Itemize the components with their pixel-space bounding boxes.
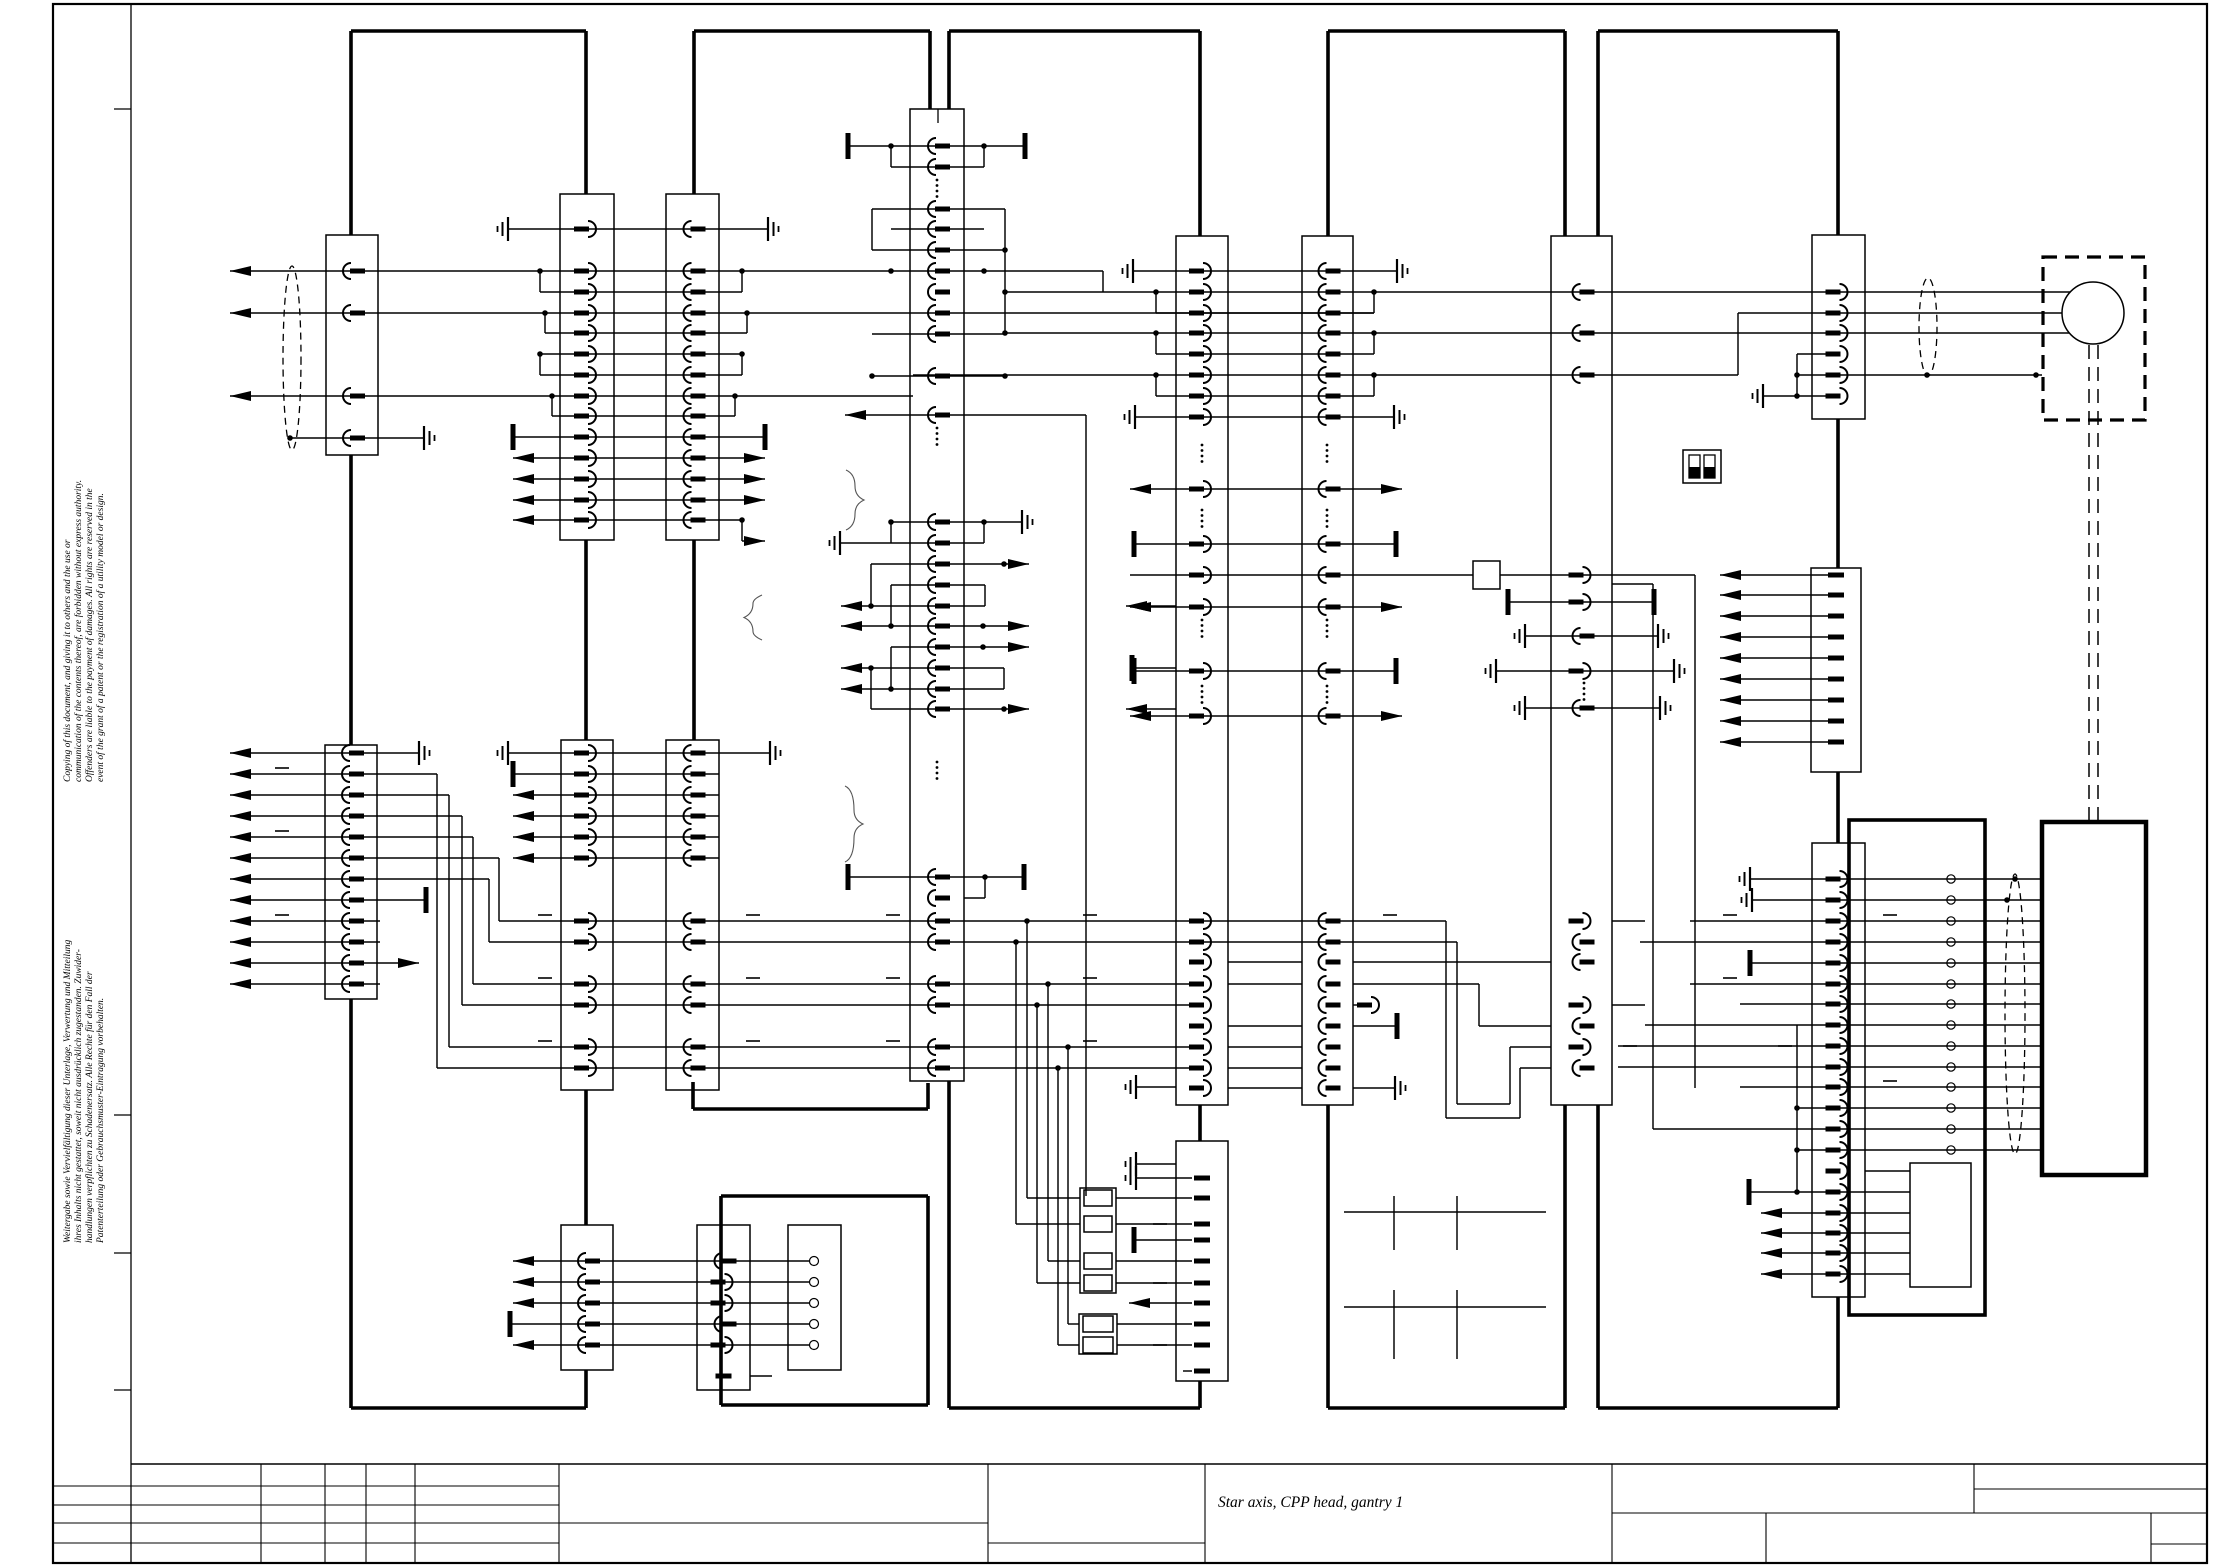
wire plug row 1005: [1353, 997, 1645, 1013]
cabinet 5 outline: [1598, 31, 1838, 1408]
wire blind row 437: [513, 424, 765, 450]
wire fan row 858: [230, 853, 499, 921]
ellipsis X7 top: [936, 179, 939, 182]
connector -X1 (cab1 left): [326, 235, 378, 455]
wire fuse row 1345: [1117, 1344, 1192, 1346]
copyright notice (german): [62, 939, 106, 1244]
wire feeder 1016: [1016, 942, 1080, 1224]
wire blind row 544 FG: [1134, 531, 1396, 557]
wire feeder 1058: [1058, 1068, 1079, 1345]
device box B6: [1849, 820, 1985, 1315]
wire inner row 1261: [513, 1256, 809, 1266]
svg-text:Weitergabe sowie Vervielfältig: Weitergabe sowie Vervielfältigung dieser…: [62, 939, 73, 1243]
wire row 334 M: [872, 333, 1005, 335]
wire row 900 C6: [1742, 888, 2043, 912]
wire row 376: [869, 373, 1008, 379]
device box B7: [2042, 822, 2146, 1175]
fuse group 1: [1080, 1188, 1116, 1293]
wire ground row 708: [1515, 696, 1671, 720]
device inner module: [1910, 1163, 1971, 1287]
wire row 963 fan: [230, 958, 419, 968]
wire row 942 C6: [1640, 941, 2042, 943]
wire fuse row 1324: [1117, 1323, 1192, 1325]
svg-text:Patenterteilung oder Gebrauchs: Patenterteilung oder Gebrauchsmuster-Ein…: [96, 998, 106, 1244]
wire net V row 313: [230, 308, 2062, 318]
wire pair row 375 local: [540, 374, 742, 376]
wire row 795 EH: [513, 790, 719, 800]
wire spare row 679 cab5: [1720, 674, 1836, 684]
connector -X3 (cab2 left): [666, 194, 719, 540]
wire spare row 637 cab5: [1720, 632, 1836, 642]
wire ground row 1088 G: [1353, 1076, 1406, 1100]
wire row 375 motor tail: [1794, 372, 2042, 378]
title block: [53, 1464, 2207, 1563]
brace annotation 3: [845, 786, 863, 862]
copyright notice (english): [62, 480, 106, 782]
wire row 522: [888, 510, 1032, 543]
wire blind row 602: [1508, 589, 1654, 615]
wire row 415: [845, 410, 1086, 1196]
wire row 898: [964, 897, 985, 899]
wire stub row 921 X10: [1612, 920, 1645, 922]
fan dash labels: [275, 767, 289, 769]
terminal circles block: [788, 1225, 841, 1370]
wire row 564: [871, 559, 1029, 606]
wire shield A: [283, 266, 301, 450]
wire row 962 FG: [1228, 961, 1302, 963]
wire ground row 636: [1515, 624, 1669, 648]
wire long row 1005: [462, 1002, 1202, 1008]
wire spare row 616 cab5: [1720, 611, 1836, 621]
wire row 984 C6: [1690, 978, 2042, 984]
svg-text:event of the grant of a patent: event of the grant of a patent or the re…: [95, 493, 106, 782]
connector -X8 (cab3 right): [1176, 236, 1228, 1105]
wire row 753 fan: [230, 741, 430, 765]
connector -X10 (cab4/cab5 wall): [1551, 236, 1612, 1105]
wire row 354 X11: [1797, 354, 1826, 396]
wire shield B6: [2005, 874, 2025, 1154]
wire fan row 837: [230, 832, 473, 984]
ellipsis X8 mid: [1201, 509, 1204, 512]
wire blind row 671 FG: [1134, 658, 1396, 684]
wire ground 1087: [1126, 1075, 1177, 1099]
wire fuse row 1224: [1116, 1223, 1192, 1225]
cabinet 2 wall elbow: [693, 1082, 928, 1109]
wire spare row 607 FG: [1130, 602, 1402, 612]
ellipsis X9 low3: [1326, 685, 1329, 688]
wire row 1129 C6: [1653, 1128, 2042, 1130]
wire row 647: [891, 642, 1029, 689]
wire feeder 1068: [1068, 1047, 1079, 1324]
wire row 753 EH: [498, 741, 781, 765]
wire cross 984: [1353, 984, 1551, 1026]
wire net U row 271: [230, 266, 1103, 292]
wire inner row 1345: [513, 1340, 809, 1350]
wire row 837 EH: [513, 832, 719, 842]
wire row 209: [872, 209, 1008, 335]
ellipsis X8 low2: [1201, 619, 1204, 622]
connector -X14 (cab3 fuse column): [1176, 1141, 1228, 1381]
wire pair row 313 FG: [1156, 312, 1374, 314]
wire fuse row 1371: [1183, 1370, 1192, 1372]
wire net V row 333: [545, 313, 2069, 354]
wire row 584 branch: [1612, 584, 1653, 1129]
ellipsis X7 mid: [936, 427, 939, 430]
wire row 1025 C6: [1645, 1025, 2042, 1195]
motor outline (dashed): [2043, 257, 2145, 420]
wire pair row 396 FG: [1156, 395, 1374, 397]
wire pair row 146: [848, 133, 1025, 167]
wire ground 1164: [1126, 1152, 1177, 1176]
wire row 1150 C6: [1797, 1149, 2042, 1151]
wire shield tail X1: [287, 426, 434, 450]
cabinet 2 inner box: [721, 1196, 928, 1405]
key switch box: [1473, 561, 1500, 589]
wire row 1047 FG: [1228, 1046, 1302, 1048]
connector -X11 (cab5 right top): [1812, 235, 1865, 419]
connector -X16 (inner wall lower): [697, 1225, 750, 1390]
wire row 1004 C6: [1740, 1003, 2042, 1005]
wire fuse row 1198: [1116, 1197, 1192, 1199]
wire row 229 M: [891, 228, 984, 230]
wire spare row 595 cab5: [1720, 590, 1836, 600]
wire long row 921: [499, 915, 1397, 924]
wire row 1171 C6: [1865, 1170, 1910, 1172]
margin line: [130, 4, 132, 1563]
wire inner row 1324: [510, 1311, 809, 1337]
wire row 1274 C6: [1761, 1269, 1910, 1279]
wire row 1046 C6: [1618, 1045, 2042, 1047]
wire net W row 375: [913, 313, 1738, 396]
wire spare row 742 cab5: [1720, 737, 1836, 747]
wire row 877: [848, 864, 1024, 898]
wire row 1067 C6: [1618, 1066, 2042, 1068]
wire cross 942: [1353, 942, 1551, 1104]
DIP switch: [1683, 450, 1721, 483]
wire spare row 458: [513, 453, 765, 463]
wire cross 962: [1353, 961, 1551, 963]
wire pair row 354: [537, 351, 1374, 375]
wire cross 921: [1353, 921, 1551, 1118]
wire row 921 C6: [1690, 915, 2042, 921]
wire row 984 FG: [1228, 983, 1302, 985]
wire row 585: [891, 585, 985, 626]
terminal circles C6: [1947, 875, 1955, 883]
wire feeder 1037: [1037, 1005, 1080, 1283]
brace annotation 2: [744, 595, 762, 640]
motor cable dashed pair: [2088, 345, 2090, 822]
wire row 963 C6: [1750, 950, 2042, 976]
margin tick: [114, 1389, 131, 1391]
margin tick: [114, 1252, 131, 1254]
wire row 709: [871, 668, 1176, 714]
wire fan row 816: [230, 811, 462, 1005]
wire fan row 879: [230, 874, 489, 942]
wire fuse row 1261: [1116, 1260, 1192, 1262]
ellipsis X9 low: [1326, 444, 1329, 447]
wire fuse row 1240: [1134, 1227, 1192, 1253]
cabinet 1 outline: [351, 31, 586, 1408]
ellipsis X8 low3: [1201, 685, 1204, 688]
wire net U row 292: [540, 271, 2070, 313]
test cross group 2: [1344, 1290, 1546, 1359]
connector -X13 (cab5/B6 wall): [1812, 843, 1865, 1297]
wire long row 984: [473, 978, 1202, 987]
wire row 921 stub: [230, 916, 380, 926]
connector -X9 (cab4 left): [1302, 236, 1353, 1105]
middle column top tick: [937, 109, 939, 123]
connector -X4 (cab1 left lower): [325, 745, 377, 999]
wire row 1253 C6: [1761, 1248, 1910, 1258]
wire inner row 1376: [750, 1375, 772, 1377]
wire row 858 EH: [513, 853, 719, 863]
wire long row 1047: [449, 1041, 1202, 1050]
wire feeder 1048: [1048, 984, 1080, 1261]
margin tick: [114, 1114, 131, 1116]
wire row 1087 C6: [1740, 1081, 2042, 1087]
cabinet 3 outline: [949, 31, 1200, 1408]
wire spare row 520: [513, 515, 765, 546]
wire row 606: [841, 601, 1176, 611]
wire row 396 X11: [1753, 384, 1827, 408]
wire row 668: [841, 655, 1176, 689]
wire spare row 500: [513, 495, 765, 505]
ellipsis X9 mid: [1326, 509, 1329, 512]
wire row 543: [830, 522, 985, 555]
wire row 689: [841, 684, 1004, 694]
connector -X15 (inner left lower): [561, 1225, 613, 1370]
wire fan row 774: [230, 769, 437, 1068]
svg-text:handlungen verpflichten zu Sch: handlungen verpflichten zu Schadenersatz…: [84, 971, 95, 1243]
wire fuse row 1283: [1116, 1282, 1192, 1284]
connector -X12 (cab5 right mid): [1811, 568, 1861, 772]
wire row 1026 FG: [1228, 1025, 1302, 1027]
wire fan row 795: [230, 790, 449, 1047]
ellipsis X7 low: [936, 761, 939, 764]
wire spare row 716 FG: [1130, 711, 1402, 721]
wire row 1068 FG: [1228, 1067, 1302, 1069]
svg-text:communication of the contents: communication of the contents thereof, a…: [73, 480, 84, 782]
svg-text:Copying of this document, and: Copying of this document, and giving it …: [62, 539, 73, 782]
ellipsis X10: [1583, 682, 1586, 685]
ellipsis X9 low2: [1326, 619, 1329, 622]
connector -X5 (cab1 right lower): [561, 740, 613, 1090]
wire row 900 fan: [230, 887, 426, 913]
wire inner row 1303: [513, 1298, 809, 1308]
wire spare row 479: [513, 474, 765, 484]
wire spare row 700 cab5: [1720, 695, 1836, 705]
wire spare row 489 FG: [1130, 484, 1402, 494]
wire spare row 658 cab5: [1720, 653, 1836, 663]
fuse group 2: [1079, 1314, 1117, 1354]
wire shield motor: [1919, 278, 1937, 376]
svg-text:Offenders are liable to the pa: Offenders are liable to the payment of d…: [84, 488, 95, 782]
wire row 774 EH: [513, 761, 719, 787]
wire ground row 417 FG: [1125, 405, 1405, 429]
connector -X7 (middle column): [910, 109, 964, 1081]
wire spare row 575 cab5: [1720, 570, 1836, 580]
connector -X6 (cab2 left lower): [666, 740, 719, 1090]
wire row 879 C6: [1740, 867, 2043, 891]
ellipsis X8 low: [1201, 444, 1204, 447]
wire row 816 EH: [513, 811, 719, 821]
wire ground row 671: [1486, 659, 1685, 683]
wire net W row 396: [230, 391, 913, 416]
wire fuse row 1178: [1126, 1166, 1193, 1190]
wire inner row 1282: [513, 1277, 809, 1287]
wire row 575 long: [1130, 575, 1695, 1088]
wire row 1192 C6: [1749, 1179, 1910, 1205]
brace annotation 1: [846, 470, 864, 530]
connector -X2 (cab1 right): [560, 194, 614, 540]
wire row 250: [872, 249, 1005, 251]
wire row 626: [841, 621, 1029, 631]
svg-text:ihres Inhalts nicht gestattet,: ihres Inhalts nicht gestattet, soweit ni…: [74, 949, 84, 1243]
motor circle: [2062, 282, 2124, 344]
wire row 1108 C6: [1797, 1107, 2042, 1109]
wire row 1213 C6: [1761, 1208, 1910, 1218]
wire spare row 721 cab5: [1720, 716, 1836, 726]
wire long row 942: [489, 939, 1353, 945]
wire ground row 271 FG: [1123, 259, 1408, 283]
wire ground row 229: [498, 217, 779, 241]
cabinet 2 outline: [694, 31, 930, 740]
wire row 1088 FG: [1228, 1087, 1302, 1089]
wire pair row 416: [552, 415, 735, 417]
wire fuse row 1303: [1129, 1298, 1192, 1308]
wire long row 1068: [437, 1065, 1202, 1071]
wire pair row 167: [891, 166, 984, 168]
margin tick: [114, 108, 131, 110]
wire row 942 stub: [230, 937, 380, 947]
svg-text:Star axis, CPP head, gantry 1: Star axis, CPP head, gantry 1: [1218, 1494, 1403, 1511]
test cross group 1: [1344, 1196, 1546, 1250]
wire row 984 stub: [230, 979, 380, 989]
wire row 1233 C6: [1761, 1228, 1910, 1238]
wire feeder 1027: [1027, 921, 1080, 1198]
cabinet 4 outline: [1328, 31, 1565, 1408]
wire blind row 1026: [1353, 1013, 1397, 1039]
